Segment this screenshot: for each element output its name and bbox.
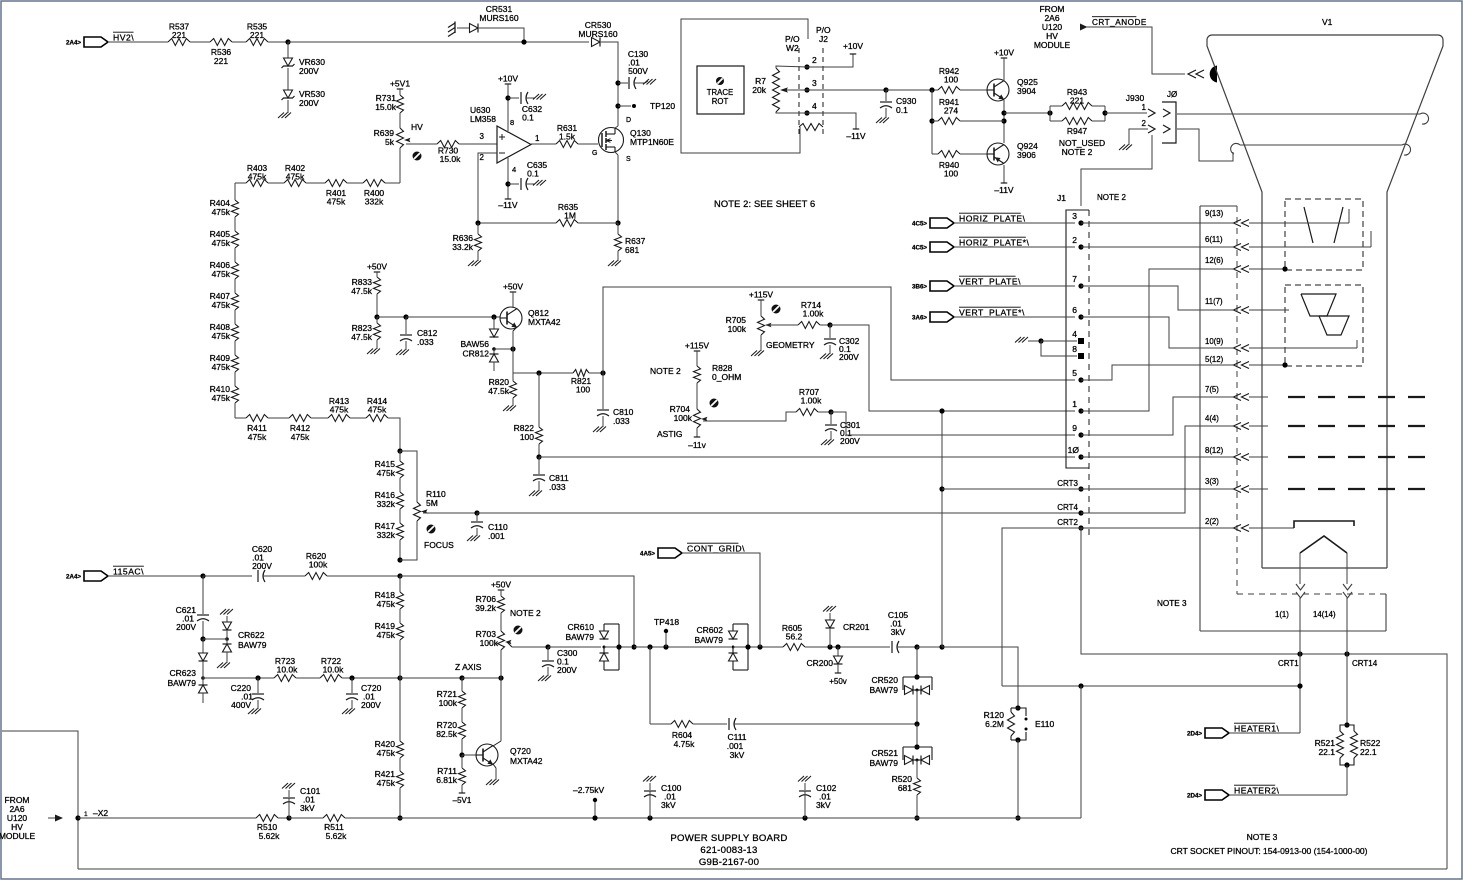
svg-text:3904: 3904 [1017,86,1036,96]
svg-text:11(7): 11(7) [1205,297,1223,306]
svg-text:3kV: 3kV [300,803,315,813]
svg-text:+10V: +10V [994,48,1014,58]
svg-text:100: 100 [520,432,534,442]
capacitor C110 [471,513,508,541]
pin 4 J2 [804,101,817,116]
svg-text:1Ø: 1Ø [1068,445,1080,455]
svg-text:332k: 332k [377,499,396,509]
svg-text:4C5>: 4C5> [912,221,927,228]
capacitor C105 [888,610,909,653]
grid row 4(4) [1249,425,1428,427]
svg-text:CRT SOCKET PINOUT: 154-0913-00: CRT SOCKET PINOUT: 154-0913-00 (154-1000… [1170,846,1367,856]
svg-text:100k: 100k [728,324,747,334]
node R820 top [512,372,514,374]
resistor R707 [796,387,822,416]
svg-text:100k: 100k [480,638,499,648]
svg-text:–2.75kV: –2.75kV [573,785,605,795]
wire pin6 to 10(9) [1081,317,1249,352]
node CRT3 riser j [939,644,944,649]
resistor R635 [478,202,618,227]
wire pin10 to 8(12) [1081,454,1249,461]
pot R703 [476,629,512,650]
wire [818,411,831,413]
node after R535 [285,39,290,44]
svg-text:200V: 200V [299,98,319,108]
wire [347,182,363,184]
svg-text:J930: J930 [1126,93,1145,103]
wire [278,817,289,819]
wire [234,310,236,324]
svg-text:ROT: ROT [712,97,729,106]
node C105 out [914,644,919,649]
arrow -X2 [48,815,63,822]
svg-text:3kV: 3kV [730,750,745,760]
resistor R720 [436,720,465,739]
wire 10(9) stub [1249,340,1357,348]
label FOCUS [424,540,454,550]
resistor R520 [892,774,921,795]
ground CR622 top [220,609,233,615]
node [475,220,480,225]
node [397,448,402,453]
svg-text:CRT2: CRT2 [1057,518,1078,527]
ground [396,348,409,355]
wire [601,42,618,126]
wire wiper [767,324,798,326]
power +50V CR200 [829,673,847,686]
power +50V [367,262,387,273]
wire [1105,112,1147,114]
wire [886,89,938,91]
resistor R420 [375,678,404,758]
wire [733,646,783,648]
wire [1346,765,1348,795]
svg-text:E110: E110 [1035,719,1054,729]
svg-text:.033: .033 [613,416,630,426]
diode pair CR602 [694,624,748,670]
wire R604 branch [650,647,671,724]
node CONT_GRID j [757,644,762,649]
diode pair CR610 [565,622,619,670]
test point TP418 [654,617,679,647]
resistor R723 [274,656,298,682]
svg-text:475k: 475k [212,393,231,403]
CRT bulb outline [1207,35,1443,568]
wire cont_grid [682,553,760,647]
svg-text:.033: .033 [549,482,566,492]
svg-text:W2: W2 [786,43,799,53]
node [647,644,652,649]
svg-text:–11v: –11v [688,440,707,450]
svg-text:BAW79: BAW79 [238,640,267,650]
ground [248,707,261,714]
label ASTIG [657,429,683,439]
svg-text:4C5>: 4C5> [912,245,927,252]
resistor R823 [351,317,380,342]
svg-text:681: 681 [625,245,639,255]
svg-text:+50V: +50V [503,282,523,292]
svg-text:ASTIG: ASTIG [657,429,683,439]
svg-text:475k: 475k [377,468,396,478]
wire [406,143,437,145]
svg-text:+10V: +10V [498,74,518,84]
svg-text:VERT_PLATE\: VERT_PLATE\ [959,277,1021,287]
node [914,815,919,820]
label 4(4) [1205,414,1219,423]
svg-text:1: 1 [84,811,88,818]
resistor R828 0_OHM [694,363,742,383]
input flag VERT_PLATE (3B6) [912,276,1021,291]
wire collector [512,292,514,308]
node CRT14 [1344,651,1349,656]
node C101 [286,815,291,820]
node R822 top [536,370,541,375]
wire [234,279,236,293]
resistor R947 [1050,118,1105,137]
wire [234,372,236,386]
capacitor C300 [542,647,578,675]
svg-text:47.5k: 47.5k [488,386,510,396]
wire [306,182,325,184]
J1 pin 5 [1072,368,1083,383]
capacitor C812 [400,317,438,348]
label NOTE 3 [1157,599,1187,608]
svg-text:15.0k: 15.0k [375,102,397,112]
wire ladder left [234,183,236,200]
svg-text:0.1: 0.1 [896,105,908,115]
svg-text:–11V: –11V [498,200,518,210]
svg-text:621-0083-13: 621-0083-13 [700,845,757,856]
anode button [1210,66,1217,83]
wire [914,690,919,747]
transistor Q130 [599,117,675,163]
node BAW56 base [491,314,496,319]
bottom rail [78,868,1447,870]
svg-text:2: 2 [1072,235,1077,245]
label NOTE 3 b [1247,832,1278,842]
power -11V J2 [807,113,866,141]
resistor R120 [984,708,1018,740]
svg-text:2: 2 [480,153,485,162]
label 8(12) [1205,446,1224,455]
input flag HORIZ_PLATE (4C5) [912,213,1026,228]
pin 3 J2 [804,78,817,93]
wire pin10 row [539,456,1075,458]
label 5(12) [1205,355,1224,364]
svg-text:475k: 475k [368,405,387,415]
svg-text:475k: 475k [377,778,396,788]
svg-text:BAW79: BAW79 [167,678,196,688]
label 14(14) [1313,610,1336,619]
wire link [494,348,513,350]
wire CRT3 to 3(3) [1081,486,1249,493]
svg-text:3A6>: 3A6> [912,315,927,322]
connector J930 [1126,93,1155,133]
J1 pin 4 [1072,329,1084,344]
label 2(2) [1205,517,1219,526]
node [1001,118,1006,123]
node [616,644,621,649]
V plate 1 [1301,294,1336,316]
wire [734,723,918,725]
wire collector [493,678,501,746]
svg-text:475k: 475k [212,269,231,279]
svg-text:6: 6 [1072,305,1077,315]
node [397,573,402,578]
svg-text:1: 1 [1142,103,1147,112]
wire ladder top [235,182,400,184]
ground [751,335,764,356]
wire [268,182,284,184]
svg-text:1.00k: 1.00k [801,396,823,406]
wire [916,795,918,818]
svg-text:475k: 475k [212,300,231,310]
svg-text:TP120: TP120 [650,101,675,111]
svg-text:FOCUS: FOCUS [424,540,454,550]
node CR531 junction [521,39,526,44]
svg-text:NOTE 3: NOTE 3 [1157,599,1187,608]
label 621-0083-13 [700,845,757,856]
wire focus out [423,512,477,514]
node R120 bottom [1015,737,1020,742]
wire [897,646,917,648]
svg-text:200V: 200V [839,352,859,362]
label 10(9) [1205,337,1224,346]
J1 pin 9 [1072,423,1083,438]
wire [507,84,509,131]
resistor R415 [375,451,404,478]
wire pin9 to 7(5) [1081,394,1249,436]
svg-text:VERT_PLATE*\: VERT_PLATE*\ [959,308,1025,318]
svg-text:Z AXIS: Z AXIS [455,662,482,672]
svg-text:BAW56: BAW56 [460,339,489,349]
svg-text:22.1: 22.1 [1318,747,1335,757]
capacitor C720 [346,678,382,710]
resistor R405 [210,229,239,248]
resistor R721 [437,678,466,708]
resistor R419 [375,621,404,640]
svg-text:3kV: 3kV [891,627,906,637]
node [498,675,503,680]
label 9(13) [1205,209,1224,218]
svg-text:6.2M: 6.2M [985,719,1004,729]
svg-text:200V: 200V [557,665,577,675]
wire [578,144,598,157]
svg-text:JØ: JØ [1167,90,1177,99]
resistor R714 [798,300,824,329]
pot R7 [752,68,779,112]
resistor R536 [210,39,232,67]
svg-text:HEATER1\: HEATER1\ [1234,724,1279,734]
svg-text:221: 221 [250,30,264,40]
svg-text:3: 3 [1072,211,1077,221]
node [1102,110,1107,115]
wire [296,677,320,679]
svg-text:+5V1: +5V1 [390,79,410,89]
svg-text:3: 3 [812,78,817,88]
J1 pin 1 [1072,399,1083,414]
resistor R822 [514,373,543,444]
wire heater1 riser [1299,598,1301,733]
grid row 7(5) [1249,396,1428,398]
svg-text:5.62k: 5.62k [259,831,281,841]
capacitor C130 [618,49,648,89]
wire bus [78,817,256,819]
wire to R120 [942,647,1018,708]
power +5V1 [390,79,410,90]
wire [954,316,1075,318]
wire [388,418,400,451]
svg-text:S: S [626,156,631,163]
capacitor C100 [643,776,682,818]
diode CR531 [470,4,519,33]
resistor R706 [475,594,504,613]
svg-text:200V: 200V [840,436,860,446]
pot R704 ASTIG [670,404,708,428]
capacitor C101 [282,783,295,818]
node TP418 j [663,644,668,649]
wire [1017,740,1019,818]
label 11(7) [1205,297,1223,306]
ground [608,251,621,266]
svg-text:475k: 475k [377,630,396,640]
svg-text:8(12): 8(12) [1205,446,1224,455]
svg-text:475k: 475k [212,362,231,372]
wire [500,590,502,596]
wire [400,677,462,679]
power +115V astig [685,341,710,352]
svg-text:14(14): 14(14) [1313,610,1336,619]
svg-text:100k: 100k [439,698,458,708]
wire [235,403,246,418]
arrow wiper R7 [780,87,788,92]
socket rail [1200,206,1237,631]
J1 pin 8 [1072,344,1084,359]
node [929,87,934,92]
wire out [1004,112,1050,114]
svg-text:NOTE 2: NOTE 2 [1097,193,1126,202]
svg-text:22.1: 22.1 [1360,747,1377,757]
node TP120 [615,103,620,108]
svg-text:10(9): 10(9) [1205,337,1224,346]
svg-text:GEOMETRY: GEOMETRY [766,340,815,350]
node R521 bottom [1344,762,1349,767]
wire base [406,316,500,318]
resistor R620 [305,551,328,580]
svg-text:100: 100 [576,385,590,395]
wire [289,817,323,819]
svg-text:3906: 3906 [1017,150,1036,160]
resistor R408 [210,322,239,341]
ground [1119,143,1132,150]
wire [399,478,401,492]
wire [1041,341,1077,356]
svg-text:3(3): 3(3) [1205,477,1219,486]
wire to pin1 [830,325,1075,411]
wire [268,417,289,419]
svg-text:3kV: 3kV [816,800,831,810]
svg-text:681: 681 [898,783,912,793]
resistor W2 term [799,124,823,131]
wire 115AC to zaxis drop [400,576,634,647]
svg-text:CR812: CR812 [463,349,490,359]
pot R705 GEOMETRY [726,315,772,335]
wire [327,575,400,577]
wire Q130 drain [615,42,618,128]
J1 pin 3 [1072,211,1083,226]
svg-text:2: 2 [812,55,817,65]
wire [399,540,401,560]
svg-text:1M: 1M [564,211,576,221]
svg-text:9: 9 [1072,423,1077,433]
wire [538,444,540,457]
J1 pin CRT4 [1057,503,1083,516]
svg-text:–11V: –11V [846,131,866,141]
input flag 115AC (2A4) [66,566,144,581]
wire [399,788,401,818]
svg-text:12(6): 12(6) [1205,256,1224,265]
input flag HEATER2 (2D4) [1187,785,1279,800]
node [397,557,402,562]
zener VR530 [282,89,326,108]
svg-text:–11V: –11V [994,185,1014,195]
svg-text:2A4>: 2A4> [66,574,81,581]
label NOT USED [1059,138,1105,157]
grid row 3(3) [1249,488,1428,490]
svg-text:39.2k: 39.2k [475,603,497,613]
ground [468,251,481,266]
wire [960,89,987,91]
resistor R406 [210,260,239,279]
svg-text:115AC\: 115AC\ [113,567,144,577]
wire [457,27,469,29]
svg-text:475k: 475k [212,331,231,341]
resistor R941 [932,97,1004,125]
diode pair CR520 [869,675,932,695]
svg-text:1: 1 [1072,399,1077,409]
diode pair CR521 [869,747,932,768]
node [1078,683,1083,688]
wire zaxis row [203,677,274,679]
wire pin4 [507,158,509,199]
wire [500,650,502,678]
svg-text:NOTE 2: SEE SHEET 6: NOTE 2: SEE SHEET 6 [714,199,815,209]
resistor R404 [210,198,239,217]
node [1047,110,1052,115]
wire [399,640,401,678]
wire J930-2 gnd [1129,129,1148,143]
wire [548,646,601,648]
node [75,815,80,820]
svg-text:–X2: –X2 [93,808,108,818]
wire [108,41,168,43]
resistor R417 [375,521,404,540]
wire heater14 riser [1346,598,1348,725]
svg-text:2D4>: 2D4> [1187,731,1202,738]
label CRT_ANODE [1092,17,1147,27]
svg-text:5k: 5k [385,137,395,147]
resistor R821 [571,370,592,395]
power +115V [749,290,774,301]
input flag HEATER1 (2D4) [1187,723,1279,738]
svg-text:221: 221 [1070,96,1084,106]
svg-text:6(11): 6(11) [1205,235,1223,244]
wire emitter [493,764,496,778]
svg-text:3: 3 [480,132,485,141]
wire pin2 feedback [478,153,497,223]
node C302 [827,322,832,327]
svg-text:15.0k: 15.0k [440,154,462,164]
